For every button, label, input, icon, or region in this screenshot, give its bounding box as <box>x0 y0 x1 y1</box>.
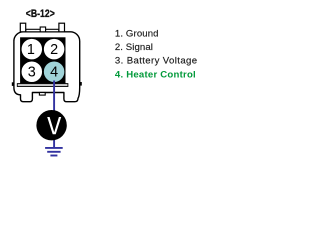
pin 3 circle <box>21 61 43 83</box>
housing top left tab <box>20 23 25 32</box>
svg-text:4. Heater Control: 4. Heater Control <box>115 70 196 81</box>
housing top center bump <box>40 27 45 32</box>
svg-text:1. Ground: 1. Ground <box>115 29 159 40</box>
terminal retainer plate (gray) <box>17 84 68 87</box>
svg-text:2: 2 <box>50 42 58 58</box>
ground symbol line 3 <box>50 155 57 157</box>
ground symbol line 1 <box>45 147 63 149</box>
housing top ridge <box>26 29 59 32</box>
svg-text:4: 4 <box>50 64 58 80</box>
voltmeter V label <box>47 117 61 134</box>
ground symbol line 2 <box>47 151 60 153</box>
pin 2 circle <box>43 38 65 60</box>
pin block (black-filled) <box>21 38 65 83</box>
pin 1 circle <box>21 38 43 60</box>
svg-text:<B-12>: <B-12> <box>26 8 55 20</box>
housing top right tab <box>59 23 65 32</box>
wire from pin 4 to voltmeter and ground <box>53 81 55 149</box>
svg-text:3: 3 <box>28 64 36 80</box>
connector housing outline <box>14 32 80 102</box>
svg-text:3. Battery Voltage: 3. Battery Voltage <box>115 56 198 67</box>
left side notch <box>12 82 14 86</box>
svg-text:2. Signal: 2. Signal <box>115 42 153 53</box>
pin 4 circle (highlighted, heater control) <box>43 61 65 83</box>
voltmeter circle <box>36 110 66 140</box>
right side notch <box>79 82 81 86</box>
bottom tab notch <box>39 93 45 96</box>
svg-text:1: 1 <box>27 42 35 58</box>
